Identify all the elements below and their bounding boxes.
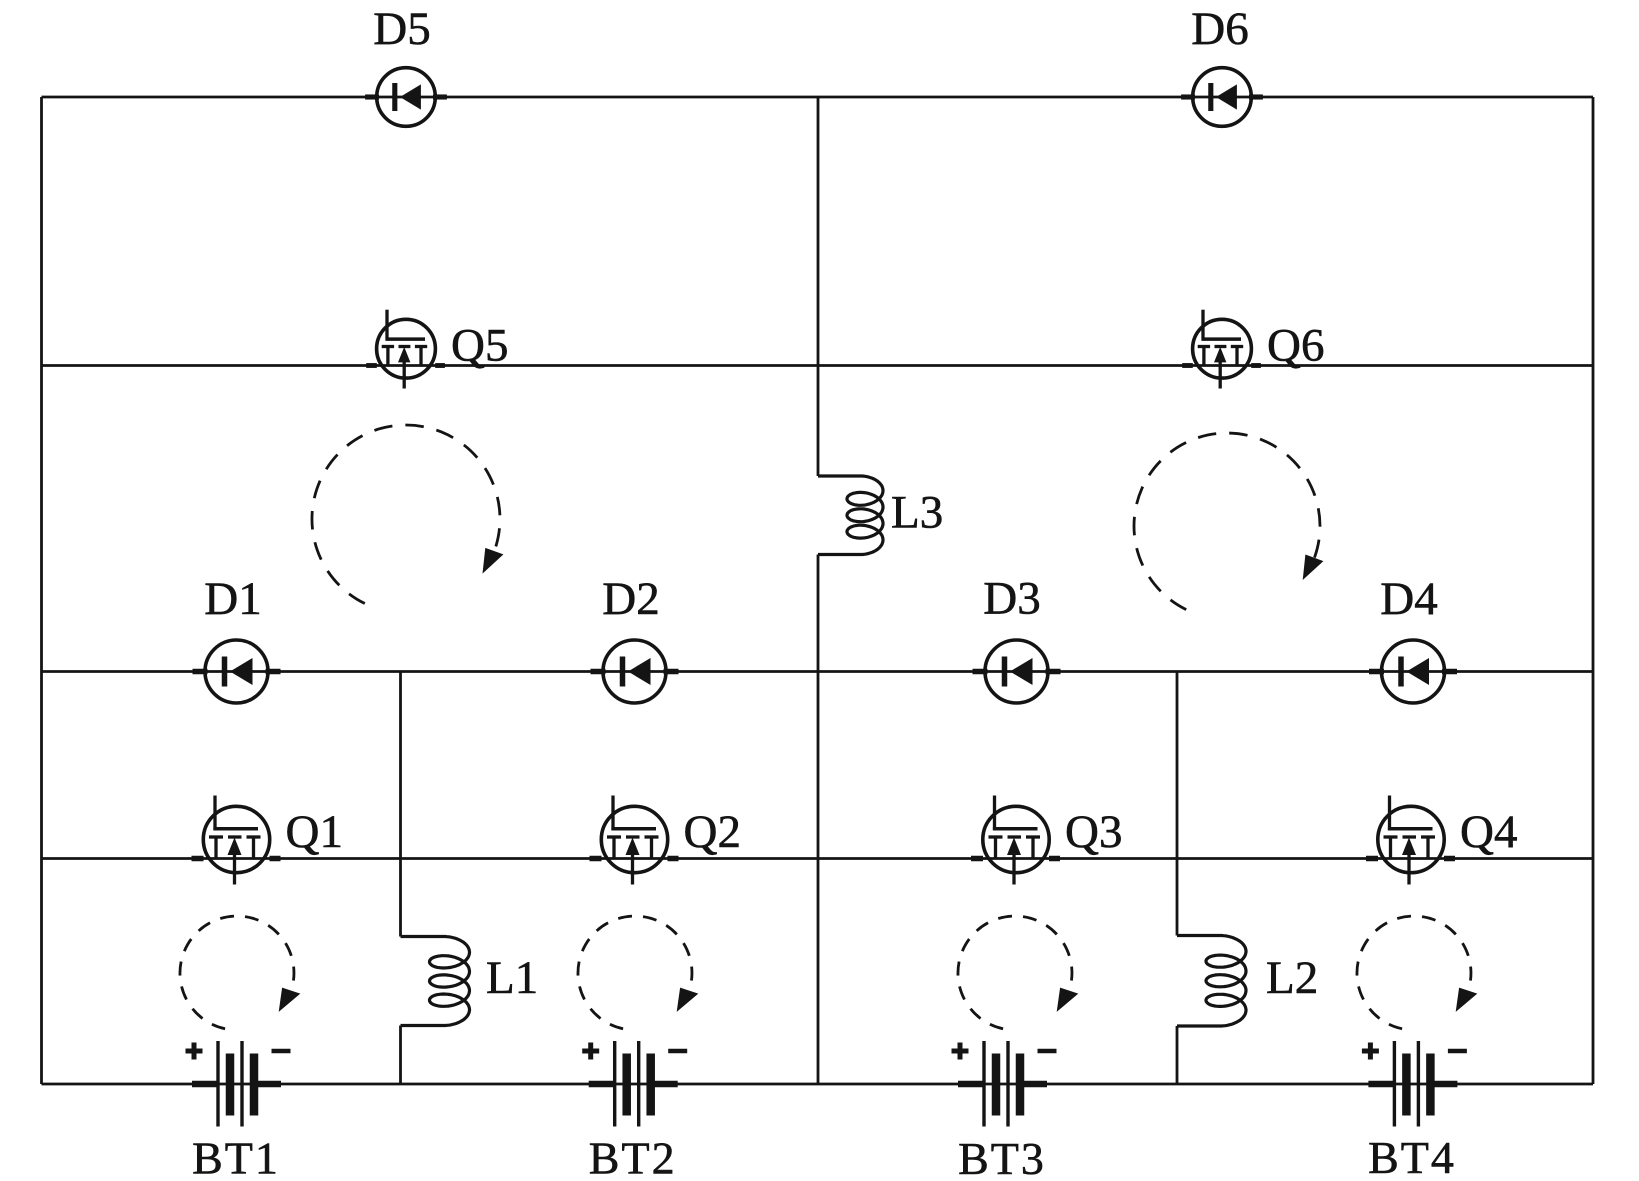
svg-text:D1: D1 [204,573,261,625]
svg-text:BT3: BT3 [958,1133,1046,1181]
svg-text:BT2: BT2 [589,1133,677,1181]
svg-text:D3: D3 [983,573,1040,625]
svg-text:L1: L1 [486,952,538,1004]
svg-text:D5: D5 [373,3,430,55]
svg-text:Q3: Q3 [1065,806,1122,858]
svg-text:Q2: Q2 [684,806,741,858]
svg-text:Q5: Q5 [451,320,508,372]
svg-text:L3: L3 [891,487,943,539]
svg-text:Q4: Q4 [1460,806,1517,858]
svg-text:D2: D2 [602,573,659,625]
svg-text:D6: D6 [1191,3,1248,55]
svg-text:Q1: Q1 [286,806,343,858]
svg-text:Q6: Q6 [1267,320,1324,372]
svg-text:D4: D4 [1380,573,1437,625]
svg-text:L2: L2 [1266,952,1318,1004]
svg-text:BT1: BT1 [192,1133,280,1181]
svg-text:BT4: BT4 [1368,1132,1456,1181]
